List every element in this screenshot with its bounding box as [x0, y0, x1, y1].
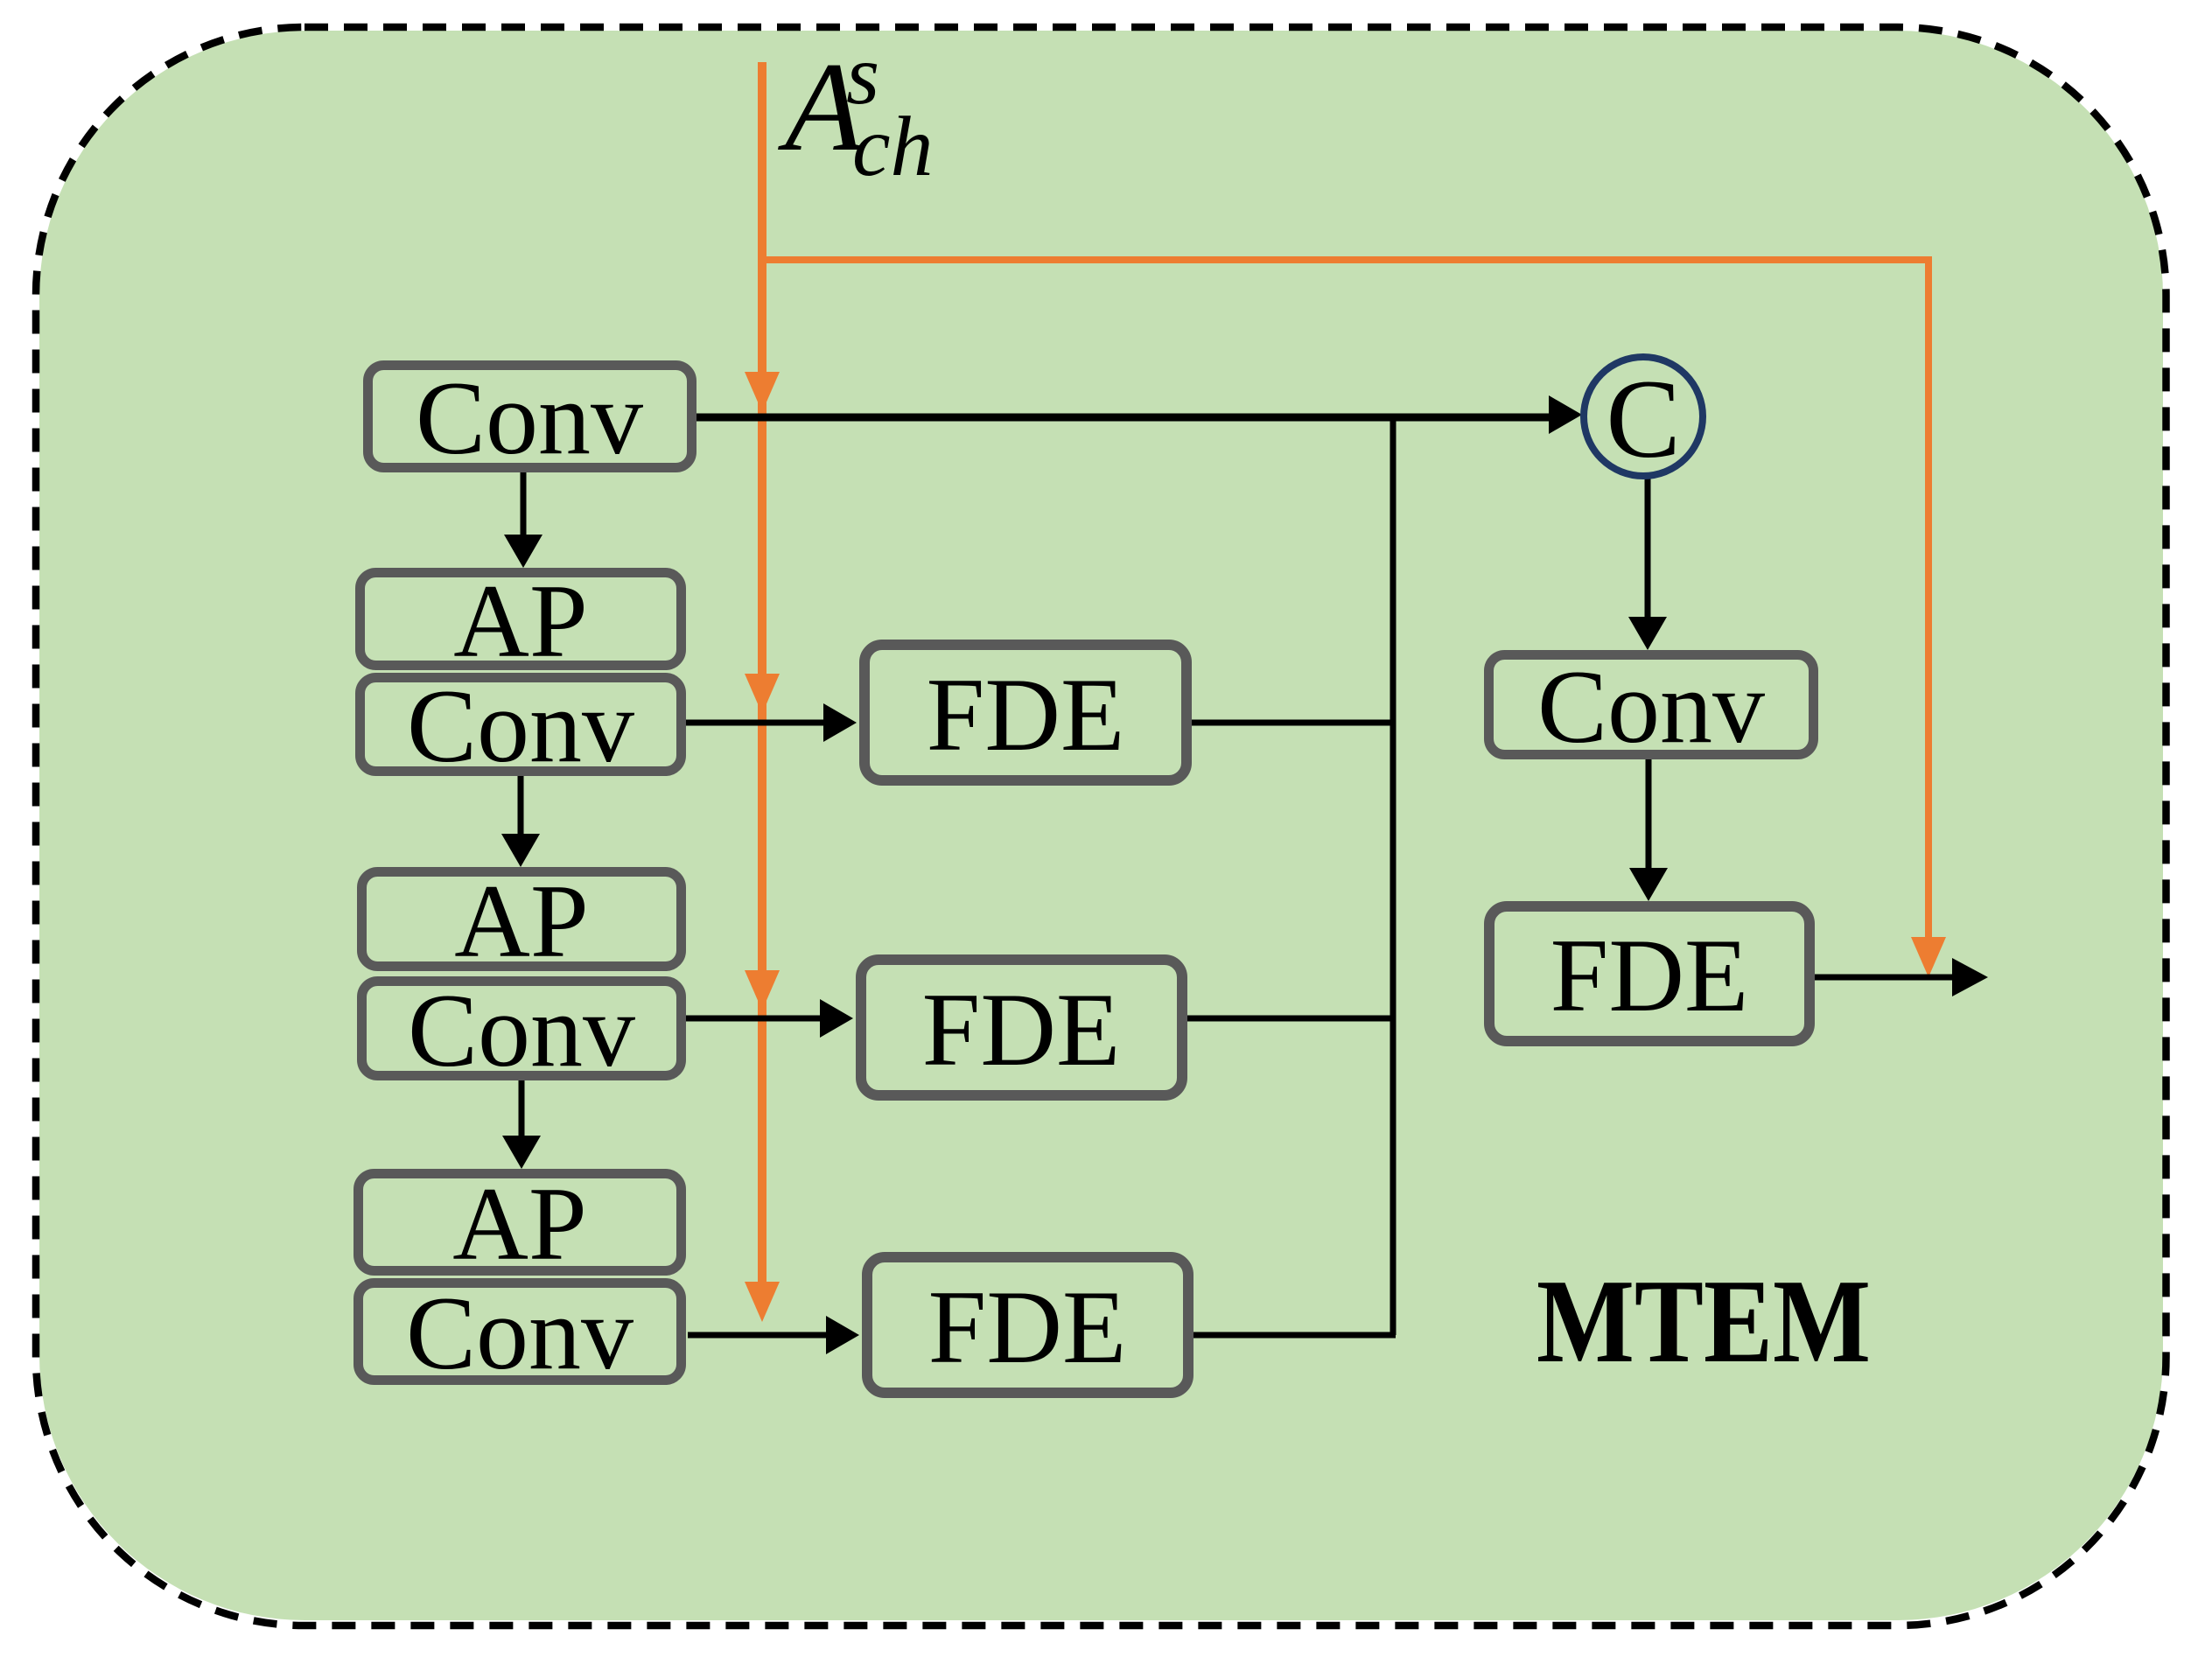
orange branch horizontal wire: [762, 256, 1932, 263]
wire Conv3 to FDE2: [686, 1016, 820, 1022]
svg-text:FDE: FDE: [1550, 917, 1749, 1033]
orange branch right vertical wire: [1925, 256, 1932, 940]
wire FDE3 to bus: [1193, 1332, 1396, 1339]
wire ConvR down to FDER: [1646, 759, 1652, 868]
wire FDE1 to bus: [1192, 720, 1396, 726]
svg-text:AP: AP: [452, 1165, 586, 1282]
arrowhead into ConvR: [1628, 617, 1667, 650]
box FDE1: [864, 645, 1186, 780]
orange arrowhead at FDE1 line crossing: [745, 674, 780, 714]
wire Conv2 to FDE1: [686, 720, 823, 726]
box FDE2: [861, 960, 1182, 1095]
box Conv1: [368, 366, 692, 468]
input A_ch^s orange vertical line: [758, 62, 766, 1285]
box FDER: [1489, 906, 1809, 1041]
box Conv2: [360, 678, 682, 772]
orange arrowhead at Conv1-C line crossing: [745, 372, 780, 412]
wire Conv1 to C: [696, 414, 1549, 422]
svg-text:AP: AP: [454, 863, 588, 979]
box AP3: [359, 1174, 682, 1271]
svg-text:Conv: Conv: [407, 668, 634, 784]
svg-text:C: C: [1606, 357, 1680, 481]
bus vertical wire: [1390, 417, 1396, 1335]
arrowhead into AP1: [504, 535, 542, 568]
box AP1: [360, 573, 682, 666]
svg-text:AP: AP: [453, 563, 587, 679]
svg-text:Conv: Conv: [416, 360, 643, 476]
box AP2: [362, 872, 682, 967]
arrowhead into FDE2: [820, 999, 853, 1038]
wire Conv3 down to AP3: [519, 1080, 525, 1136]
output arrowhead: [1952, 958, 1988, 996]
wire Conv4 to FDE3: [688, 1332, 826, 1339]
svg-text:FDE: FDE: [922, 971, 1121, 1087]
svg-text:MTEM: MTEM: [1536, 1255, 1871, 1388]
output wire from FDER: [1815, 975, 1952, 981]
box Conv4: [359, 1283, 682, 1381]
svg-text:Conv: Conv: [408, 972, 635, 1088]
svg-text:Conv: Conv: [1537, 648, 1765, 765]
svg-text:Conv: Conv: [406, 1275, 633, 1391]
arrowhead into FDE3: [826, 1316, 859, 1354]
box Conv3: [362, 982, 682, 1076]
wire Conv2 down to AP2: [518, 776, 524, 834]
orange arrowhead terminal above FDE3 line: [745, 1282, 780, 1322]
svg-text:FDE: FDE: [928, 1269, 1127, 1385]
orange arrowhead at FDE2 line crossing: [745, 970, 780, 1010]
orange arrowhead onto output line: [1911, 937, 1946, 977]
arrowhead into FDER: [1629, 868, 1668, 901]
arrowhead into AP2: [501, 834, 540, 867]
box FDE3: [867, 1257, 1188, 1393]
arrowhead into C: [1549, 395, 1582, 434]
concat node C: [1584, 357, 1703, 476]
svg-text:ch: ch: [852, 100, 934, 194]
arrowhead into FDE1: [823, 703, 857, 742]
wire C down to ConvR: [1645, 476, 1651, 617]
box ConvR: [1489, 655, 1814, 755]
svg-text:FDE: FDE: [927, 656, 1125, 773]
wire FDE2 to bus: [1187, 1016, 1396, 1022]
arrowhead into AP3: [502, 1136, 541, 1169]
wire Conv1 down to AP1: [521, 472, 527, 535]
